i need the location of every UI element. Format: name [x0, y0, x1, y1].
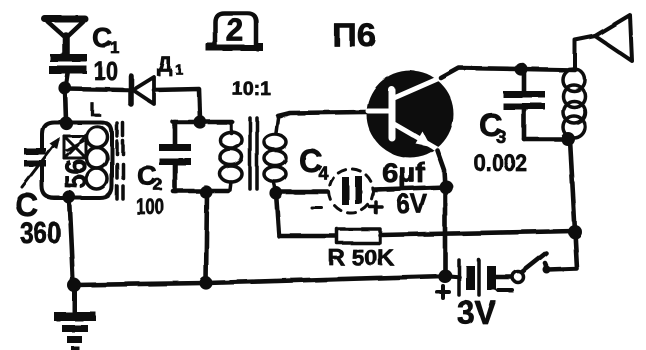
wire node A to diode — [65, 89, 128, 90]
svg-text:6V: 6V — [396, 188, 427, 219]
node bottom of L — [62, 190, 75, 203]
core coupling marks — [117, 123, 123, 199]
wire C4 to emitter node — [362, 187, 446, 190]
winding turns of L — [87, 127, 108, 148]
svg-text:2: 2 — [226, 12, 244, 48]
node B junction — [193, 115, 206, 128]
wire secondary top to base — [278, 112, 366, 116]
transformer T1 primary winding — [220, 124, 242, 190]
wire to resistor R — [279, 234, 337, 239]
junction battery rail — [438, 269, 452, 283]
label C3 — [479, 107, 506, 147]
wire emitter rail down to battery rail — [443, 187, 448, 276]
transistor Q1 П6 — [367, 71, 454, 158]
svg-text:10: 10 — [94, 56, 118, 86]
capacitor C1 — [49, 54, 87, 74]
svg-text:L: L — [90, 100, 101, 120]
bottom ground rail wire — [74, 276, 459, 285]
battery 3V — [459, 260, 496, 295]
diode Д1 — [131, 76, 154, 104]
svg-text:4: 4 — [318, 163, 328, 183]
transformer T1 primary loop wires — [173, 122, 232, 191]
svg-text:10:1: 10:1 — [232, 79, 271, 100]
label C1 — [92, 22, 119, 57]
label C4 — [299, 143, 328, 183]
wire L bottom to ground rail — [69, 198, 73, 284]
wire collector to top rail — [441, 68, 575, 78]
svg-text:6µf: 6µf — [382, 157, 426, 188]
svg-text:Д: Д — [157, 53, 172, 76]
wire emitter down — [437, 150, 445, 187]
wire diode to node B — [154, 89, 200, 120]
polarity minus of battery — [498, 288, 512, 292]
polarity minus of C4 — [312, 207, 322, 210]
junction C2 rail — [199, 276, 212, 289]
node A junction — [58, 81, 71, 94]
earphone coil — [563, 69, 585, 139]
junction ground rail left — [67, 278, 81, 292]
svg-text:0.002: 0.002 — [474, 150, 527, 177]
coil L ferrite antenna frame — [42, 122, 112, 198]
wire node A down to coil L — [65, 89, 66, 121]
resistor R 50K — [337, 229, 380, 243]
wire battery to switch — [496, 275, 512, 280]
earphone horn — [575, 15, 632, 70]
svg-text:56: 56 — [58, 159, 93, 189]
svg-text:1: 1 — [175, 61, 183, 77]
antenna W1 — [45, 19, 85, 56]
wire C1 to node A — [66, 74, 68, 87]
junction emitter / C4 — [439, 180, 453, 194]
svg-text:R 50K: R 50K — [328, 245, 394, 270]
junction right rail — [568, 225, 582, 239]
polarity plus of C4 — [370, 202, 382, 213]
wire secondary bottom to C4 — [276, 190, 342, 195]
svg-text:100: 100 — [136, 194, 164, 219]
variable capacitor C 360 — [22, 137, 60, 187]
polarity plus of battery — [437, 286, 449, 298]
svg-text:360: 360 — [20, 217, 61, 250]
svg-text:3V: 3V — [457, 294, 496, 331]
junction coil bottom — [561, 132, 575, 146]
svg-text:3: 3 — [496, 127, 506, 147]
transformer T1 secondary winding — [264, 118, 286, 191]
capacitor C4 electrolytic — [329, 169, 373, 213]
wire C3 bottom to coil bottom — [524, 137, 564, 142]
wire C2 bottom rail down — [206, 192, 207, 283]
wire switch contact to right rail — [545, 232, 577, 270]
junction C3 top — [514, 62, 527, 75]
label Д1 — [157, 53, 183, 77]
switch S1 — [513, 253, 547, 283]
junction secondary bottom — [269, 186, 282, 199]
capacitor C3 — [503, 69, 545, 139]
svg-text:1: 1 — [110, 38, 119, 57]
wire secondary bottom down to R — [276, 193, 279, 236]
label C2 — [137, 160, 162, 194]
wire coil bottom to right rail junction — [570, 140, 575, 231]
svg-text:2: 2 — [153, 175, 162, 194]
ground — [54, 286, 96, 350]
figure marker 2 — [206, 12, 263, 51]
capacitor C2 — [159, 122, 191, 191]
core symbol in L — [64, 136, 86, 158]
node top of L — [59, 116, 72, 129]
transformer core — [250, 118, 257, 189]
svg-text:П6: П6 — [332, 17, 376, 53]
junction primary bottom — [199, 185, 212, 198]
wire resistor to right rail — [380, 231, 575, 235]
